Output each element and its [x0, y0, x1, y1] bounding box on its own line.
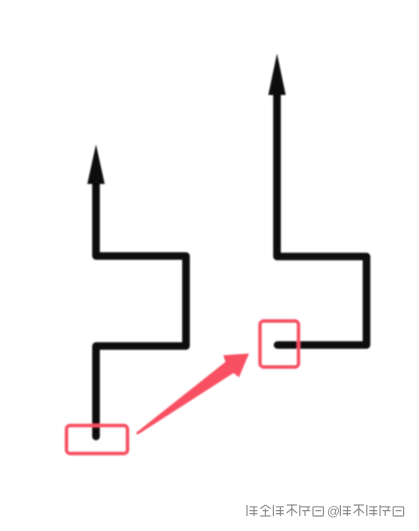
red highlight box right (around right path start)	[260, 321, 299, 367]
watermark text (pseudo CJK glyph strokes): 掘金技术社区 @ 亿元程序员	[247, 504, 404, 519]
pink annotation arrow from left box to right box	[136, 354, 249, 435]
left arrowhead	[87, 145, 104, 185]
left black polyline path	[96, 181, 186, 437]
red highlight box left (around left path start)	[67, 426, 128, 454]
right black polyline path	[277, 92, 367, 345]
right arrowhead	[268, 54, 285, 96]
svg-text:@: @	[327, 504, 340, 519]
